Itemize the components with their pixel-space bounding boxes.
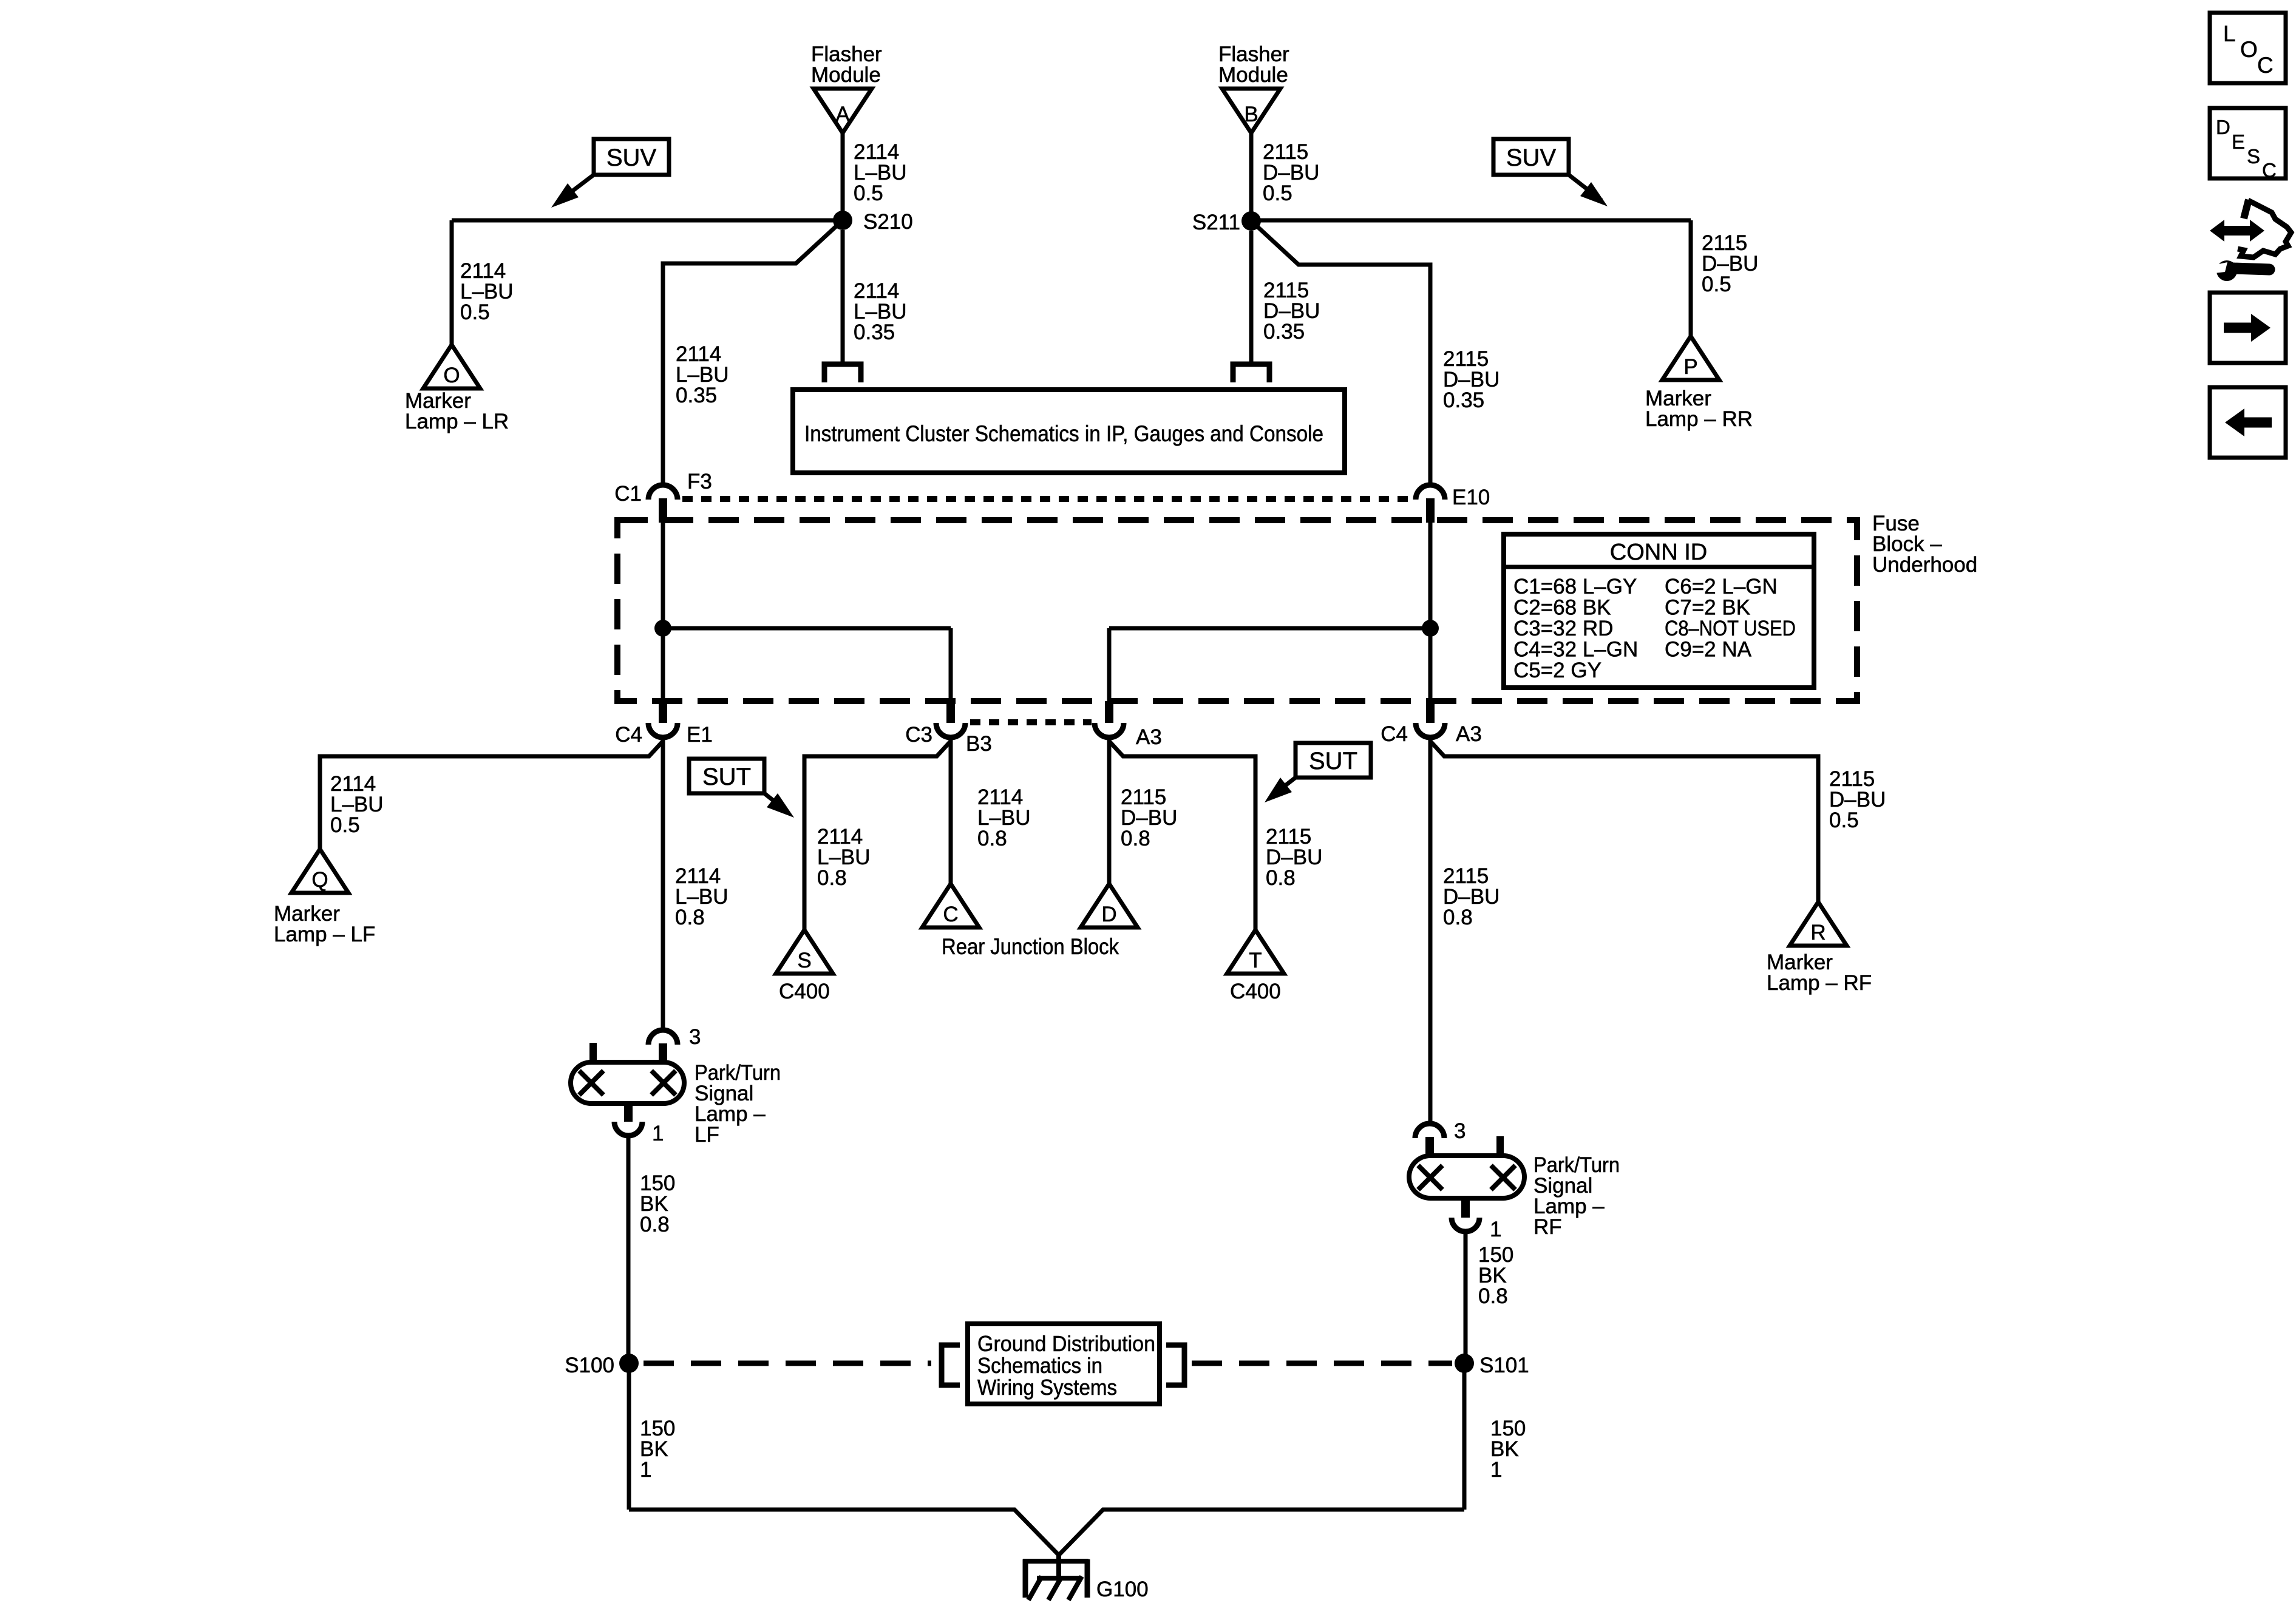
svg-text:Lamp – LF: Lamp – LF: [274, 923, 375, 946]
svg-text:0.5: 0.5: [460, 300, 490, 324]
svg-text:1: 1: [652, 1122, 664, 1145]
svg-text:P: P: [1683, 355, 1697, 379]
svg-text:C400: C400: [779, 980, 830, 1003]
svg-text:Module: Module: [811, 63, 881, 87]
svg-text:B: B: [1244, 103, 1258, 126]
svg-text:L: L: [2223, 21, 2236, 46]
svg-text:D: D: [1101, 903, 1116, 926]
svg-text:Instrument Cluster Schematics: Instrument Cluster Schematics in IP, Gau…: [804, 421, 1323, 446]
svg-text:0.5: 0.5: [1829, 808, 1859, 832]
svg-text:1: 1: [1490, 1458, 1502, 1482]
svg-text:C4: C4: [1381, 722, 1408, 746]
svg-text:C1=68 L–GY: C1=68 L–GY: [1513, 575, 1637, 598]
svg-text:O: O: [443, 364, 460, 387]
svg-text:A: A: [835, 103, 850, 126]
svg-text:SUV: SUV: [1506, 144, 1557, 171]
svg-text:S210: S210: [863, 210, 913, 234]
svg-text:D: D: [2216, 116, 2230, 138]
svg-text:0.5: 0.5: [854, 181, 883, 205]
svg-text:C2=68 BK: C2=68 BK: [1513, 596, 1611, 620]
svg-text:C4: C4: [615, 723, 642, 747]
svg-text:A3: A3: [1136, 725, 1162, 749]
svg-text:CONN ID: CONN ID: [1610, 540, 1707, 565]
svg-text:Ground Distribution: Ground Distribution: [977, 1331, 1155, 1356]
svg-text:0.5: 0.5: [1702, 273, 1731, 296]
svg-text:SUV: SUV: [606, 144, 657, 171]
svg-text:0.5: 0.5: [1263, 181, 1292, 205]
svg-text:E10: E10: [1452, 486, 1490, 509]
svg-text:O: O: [2240, 37, 2258, 62]
svg-text:1: 1: [1490, 1218, 1501, 1241]
svg-text:Schematics in: Schematics in: [977, 1353, 1102, 1378]
svg-text:F3: F3: [687, 470, 712, 493]
svg-text:0.35: 0.35: [676, 384, 717, 407]
svg-text:C400: C400: [1230, 980, 1281, 1003]
svg-text:Rear Junction Block: Rear Junction Block: [942, 934, 1119, 959]
svg-text:C5=2 GY: C5=2 GY: [1513, 659, 1601, 682]
svg-text:Lamp – RR: Lamp – RR: [1645, 407, 1753, 431]
svg-text:E: E: [2232, 131, 2245, 153]
svg-text:R: R: [1810, 921, 1826, 944]
svg-text:SUT: SUT: [702, 764, 751, 790]
svg-text:C3=32 RD: C3=32 RD: [1513, 617, 1613, 640]
svg-text:C3: C3: [905, 723, 932, 747]
svg-text:C7=2 BK: C7=2 BK: [1665, 596, 1750, 620]
svg-text:Underhood: Underhood: [1872, 553, 1977, 577]
svg-text:3: 3: [689, 1025, 701, 1049]
svg-text:C9=2 NA: C9=2 NA: [1665, 638, 1752, 662]
svg-text:Module: Module: [1218, 63, 1288, 87]
svg-text:0.35: 0.35: [1263, 320, 1305, 344]
svg-text:Lamp – RF: Lamp – RF: [1767, 971, 1872, 995]
svg-text:0.8: 0.8: [640, 1213, 670, 1236]
svg-text:Q: Q: [311, 868, 328, 892]
svg-text:3: 3: [1454, 1119, 1466, 1143]
svg-text:0.5: 0.5: [330, 813, 360, 837]
svg-text:0.8: 0.8: [1121, 827, 1150, 850]
svg-text:T: T: [1249, 949, 1262, 972]
svg-text:0.8: 0.8: [1443, 906, 1473, 929]
svg-text:C: C: [943, 903, 958, 926]
svg-text:0.35: 0.35: [1443, 388, 1484, 412]
svg-text:Lamp – LR: Lamp – LR: [405, 410, 509, 433]
svg-text:C8–NOT USED: C8–NOT USED: [1665, 617, 1796, 640]
svg-text:S: S: [2247, 145, 2260, 168]
svg-text:C6=2 L–GN: C6=2 L–GN: [1665, 575, 1778, 598]
svg-text:0.8: 0.8: [1266, 866, 1296, 890]
svg-text:S211: S211: [1192, 211, 1240, 234]
svg-text:B3: B3: [966, 732, 992, 756]
svg-text:1: 1: [640, 1458, 651, 1482]
svg-text:S: S: [797, 949, 811, 972]
svg-text:RF: RF: [1533, 1215, 1562, 1239]
svg-text:E1: E1: [687, 723, 713, 747]
svg-text:S100: S100: [565, 1354, 614, 1377]
svg-text:SUT: SUT: [1309, 748, 1357, 775]
svg-text:0.8: 0.8: [977, 827, 1007, 850]
svg-text:Wiring Systems: Wiring Systems: [977, 1375, 1117, 1400]
svg-text:0.8: 0.8: [675, 906, 705, 929]
svg-text:0.8: 0.8: [817, 866, 847, 890]
svg-text:G100: G100: [1096, 1578, 1149, 1601]
svg-text:C1: C1: [614, 482, 642, 506]
svg-text:C: C: [2262, 159, 2277, 181]
svg-text:LF: LF: [695, 1123, 719, 1147]
svg-text:C: C: [2257, 53, 2274, 78]
svg-text:A3: A3: [1456, 722, 1482, 746]
svg-text:C4=32 L–GN: C4=32 L–GN: [1513, 638, 1638, 662]
svg-text:0.35: 0.35: [854, 320, 895, 344]
svg-text:0.8: 0.8: [1478, 1284, 1508, 1308]
svg-text:S101: S101: [1479, 1354, 1529, 1377]
